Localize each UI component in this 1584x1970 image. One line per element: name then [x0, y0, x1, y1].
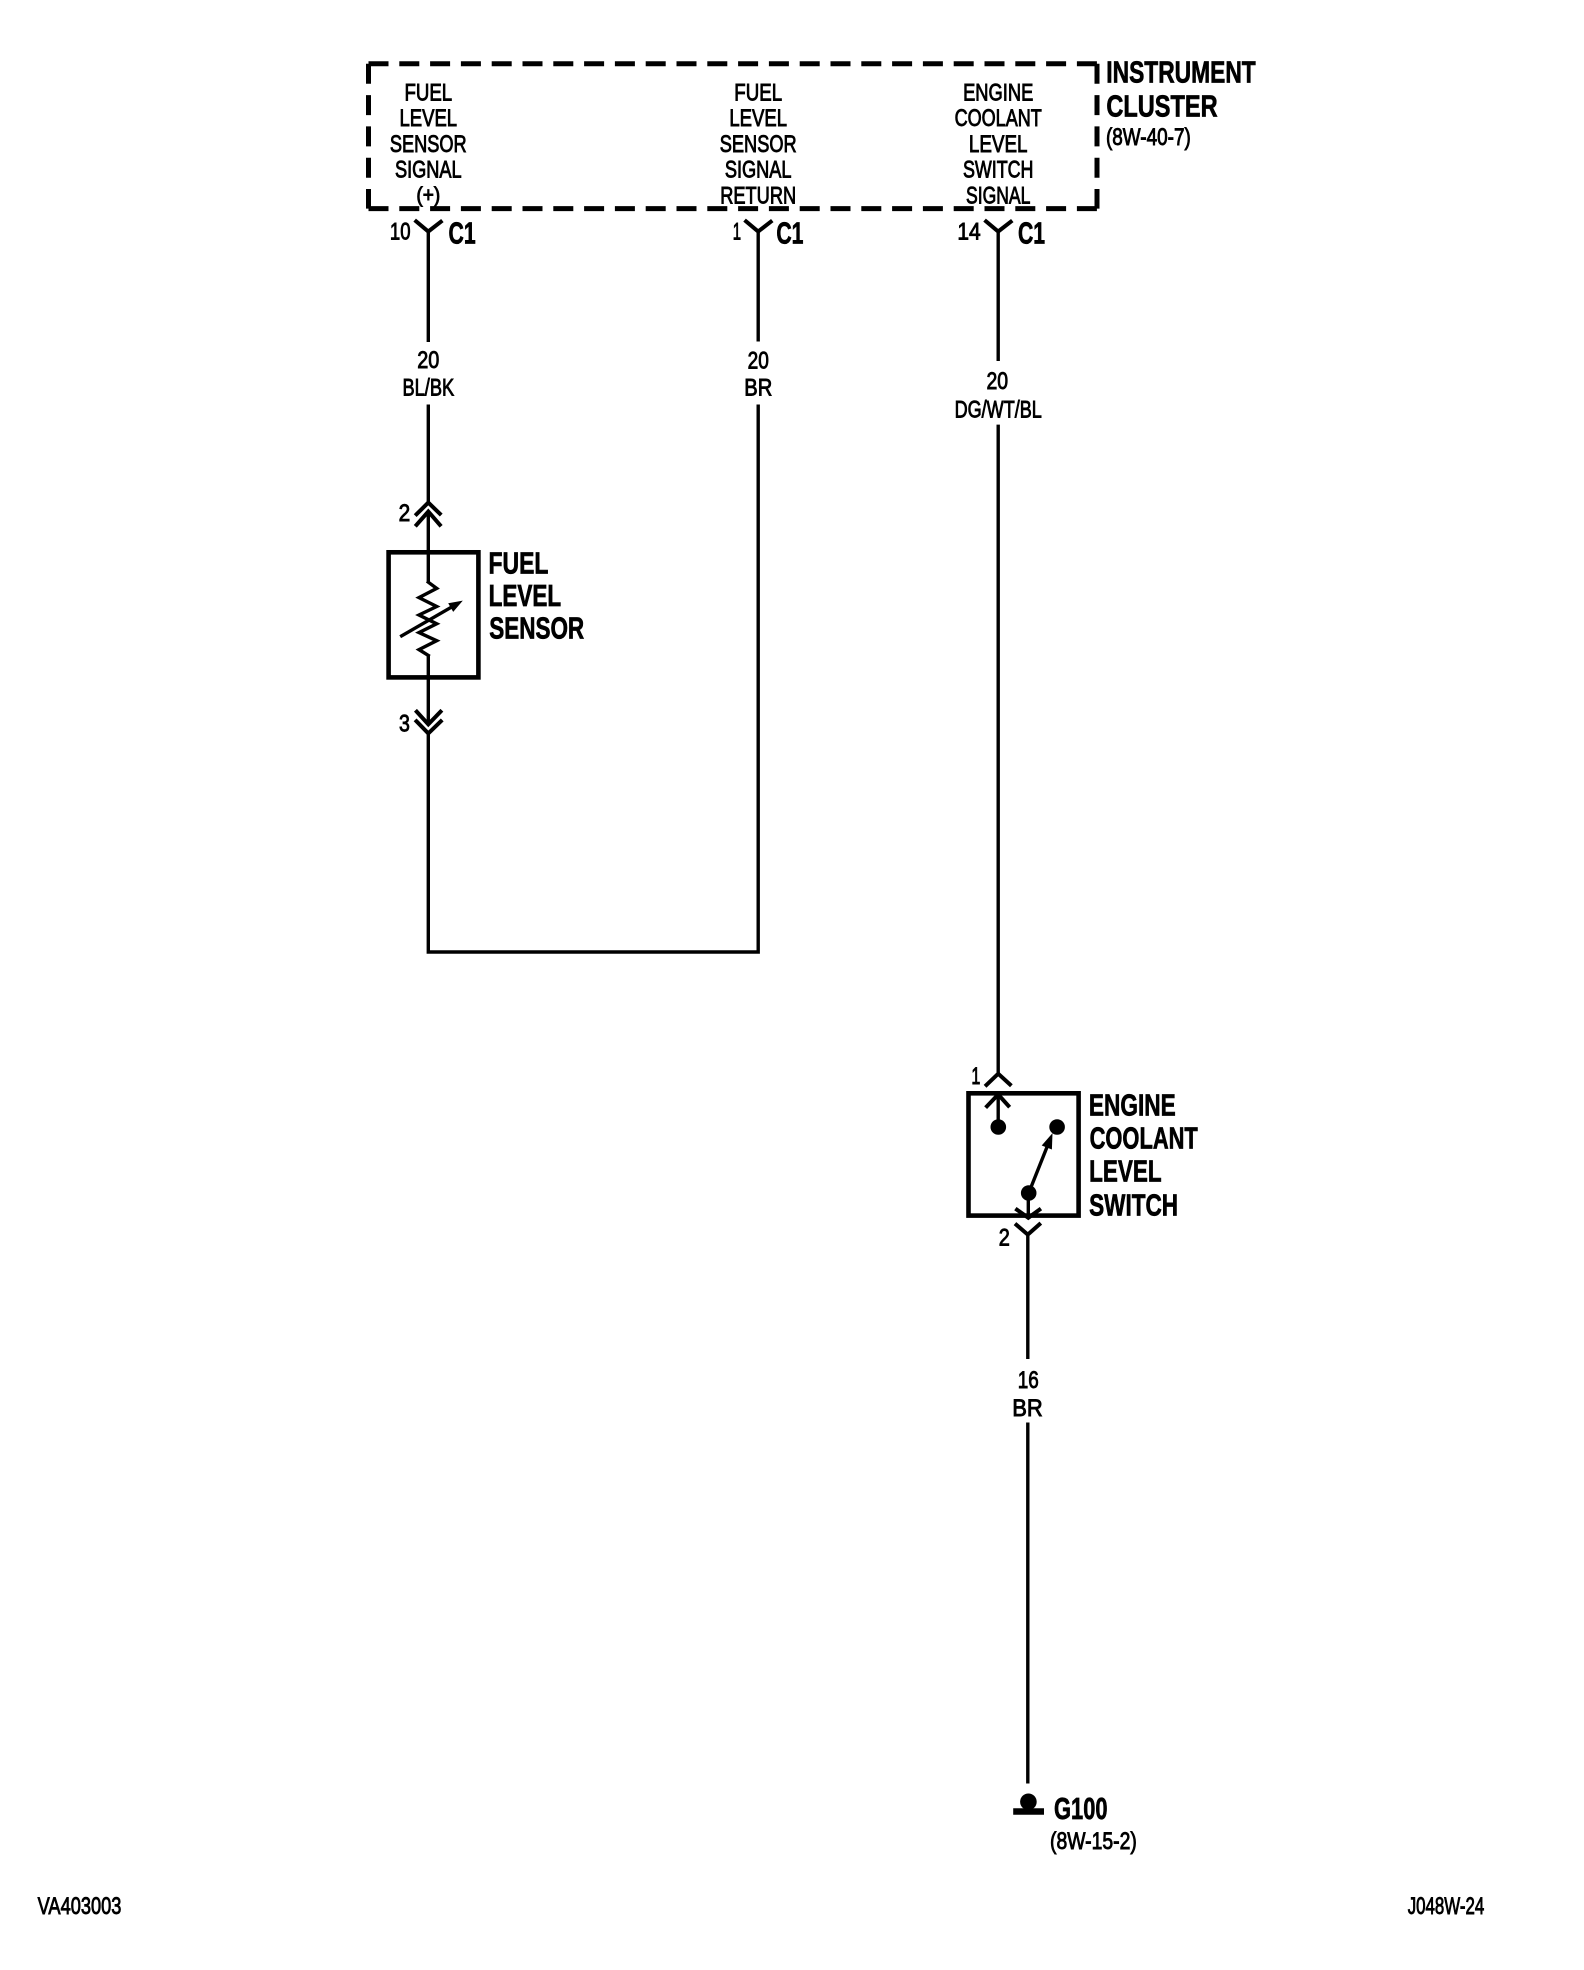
svg-text:FUEL: FUEL: [734, 79, 782, 106]
svg-text:RETURN: RETURN: [720, 182, 796, 209]
svg-text:DG/WT/BL: DG/WT/BL: [955, 396, 1042, 423]
svg-text:BL/BK: BL/BK: [403, 374, 455, 401]
switch stationary contact node (right): [1049, 1119, 1065, 1135]
connector C1 fork pin 14: [986, 221, 1011, 231]
variable resistor element: [419, 582, 437, 655]
ground symbol bar: [1013, 1808, 1044, 1814]
switch pin 1 male arrow barbs: [987, 1095, 1008, 1107]
wire DG/WT/BL upper segment: [997, 232, 1000, 362]
svg-text:20: 20: [748, 348, 769, 375]
svg-text:2: 2: [999, 1225, 1010, 1252]
svg-text:1: 1: [733, 219, 741, 246]
variable resistor arrow shaft: [400, 607, 452, 637]
svg-text:SIGNAL: SIGNAL: [966, 182, 1030, 209]
in-line connector chevron lower (pin 2): [417, 512, 440, 525]
svg-text:LEVEL: LEVEL: [1089, 1154, 1162, 1188]
svg-text:20: 20: [987, 368, 1009, 395]
instrument cluster dashed box - left edge: [366, 64, 371, 209]
wire BR to ground upper segment: [1026, 1235, 1029, 1359]
svg-text:SENSOR: SENSOR: [720, 131, 797, 158]
svg-text:SIGNAL: SIGNAL: [725, 157, 792, 184]
fuel level sensor box: [389, 552, 479, 677]
ground symbol ball: [1020, 1794, 1037, 1811]
svg-text:LEVEL: LEVEL: [400, 105, 458, 132]
svg-text:2: 2: [399, 500, 411, 527]
switch pin 2 wire to box bottom: [1027, 1193, 1030, 1218]
svg-text:LEVEL: LEVEL: [969, 131, 1028, 158]
svg-text:INSTRUMENT: INSTRUMENT: [1106, 56, 1256, 90]
svg-text:SWITCH: SWITCH: [1089, 1188, 1178, 1222]
wire sensor return (U-shape, sensor pin 3 to cluster pin 1): [428, 405, 758, 953]
svg-text:14: 14: [957, 219, 980, 246]
connector C1 fork pin 1: [746, 221, 771, 231]
in-line connector chevron upper (pin 2): [417, 503, 440, 515]
switch pin 2 fork (female, below box): [1017, 1224, 1040, 1234]
svg-text:SWITCH: SWITCH: [963, 157, 1034, 184]
wire BR upper segment (col2): [757, 232, 760, 342]
svg-text:ENGINE: ENGINE: [963, 79, 1033, 106]
svg-text:10: 10: [390, 219, 411, 246]
svg-text:CLUSTER: CLUSTER: [1106, 90, 1217, 124]
svg-text:C1: C1: [1018, 217, 1045, 251]
svg-text:BR: BR: [1012, 1395, 1043, 1422]
switch common contact node (pin 2): [1021, 1185, 1037, 1201]
engine coolant level switch box: [969, 1093, 1079, 1215]
svg-text:COOLANT: COOLANT: [955, 105, 1042, 132]
svg-text:LEVEL: LEVEL: [489, 579, 562, 613]
svg-text:G100: G100: [1054, 1792, 1108, 1826]
svg-text:C1: C1: [776, 217, 803, 251]
wire out of fuel level sensor: [427, 655, 430, 724]
svg-text:BR: BR: [744, 375, 772, 402]
wire BL/BK lower segment: [427, 405, 430, 503]
svg-text:16: 16: [1018, 1367, 1039, 1394]
in-line connector chevron lower (pin 3): [417, 721, 441, 733]
instrument cluster dashed box - top edge: [369, 61, 1098, 66]
svg-text:3: 3: [399, 710, 410, 737]
wire BL/BK upper segment: [427, 232, 430, 343]
connector C1 fork pin 10: [416, 221, 441, 231]
instrument cluster dashed box - bottom edge: [369, 206, 1098, 211]
svg-text:20: 20: [417, 347, 439, 374]
switch movable arm shaft: [1029, 1145, 1048, 1194]
in-line connector chevron upper (pin 3): [417, 712, 441, 725]
svg-text:(8W-15-2): (8W-15-2): [1050, 1828, 1137, 1855]
wire DG/WT/BL lower segment: [997, 425, 1000, 1074]
switch pin 1 male arrow shaft: [997, 1095, 1000, 1128]
switch stationary contact node (pin 1): [991, 1119, 1007, 1135]
svg-text:VA403003: VA403003: [38, 1893, 122, 1920]
svg-text:(8W-40-7): (8W-40-7): [1106, 124, 1191, 151]
svg-text:LEVEL: LEVEL: [729, 105, 787, 132]
svg-text:SIGNAL: SIGNAL: [395, 157, 462, 184]
switch movable arm arrow head: [1042, 1133, 1053, 1149]
svg-text:ENGINE: ENGINE: [1089, 1089, 1176, 1123]
svg-text:J048W-24: J048W-24: [1408, 1893, 1485, 1920]
wire BR to ground lower segment: [1026, 1423, 1029, 1784]
variable resistor arrow head: [448, 601, 463, 612]
svg-text:FUEL: FUEL: [489, 547, 549, 581]
svg-text:FUEL: FUEL: [404, 79, 452, 106]
svg-text:SENSOR: SENSOR: [489, 612, 584, 646]
svg-text:(+): (+): [416, 184, 440, 207]
svg-text:1: 1: [971, 1063, 980, 1090]
switch pin 2 male arrow barbs: [1017, 1210, 1039, 1218]
svg-text:COOLANT: COOLANT: [1090, 1122, 1199, 1156]
wire into fuel level sensor: [427, 512, 430, 583]
svg-text:C1: C1: [449, 217, 476, 251]
instrument cluster dashed box - right edge: [1095, 64, 1100, 209]
svg-text:SENSOR: SENSOR: [390, 131, 467, 158]
switch pin 1 fork (female): [987, 1074, 1010, 1085]
